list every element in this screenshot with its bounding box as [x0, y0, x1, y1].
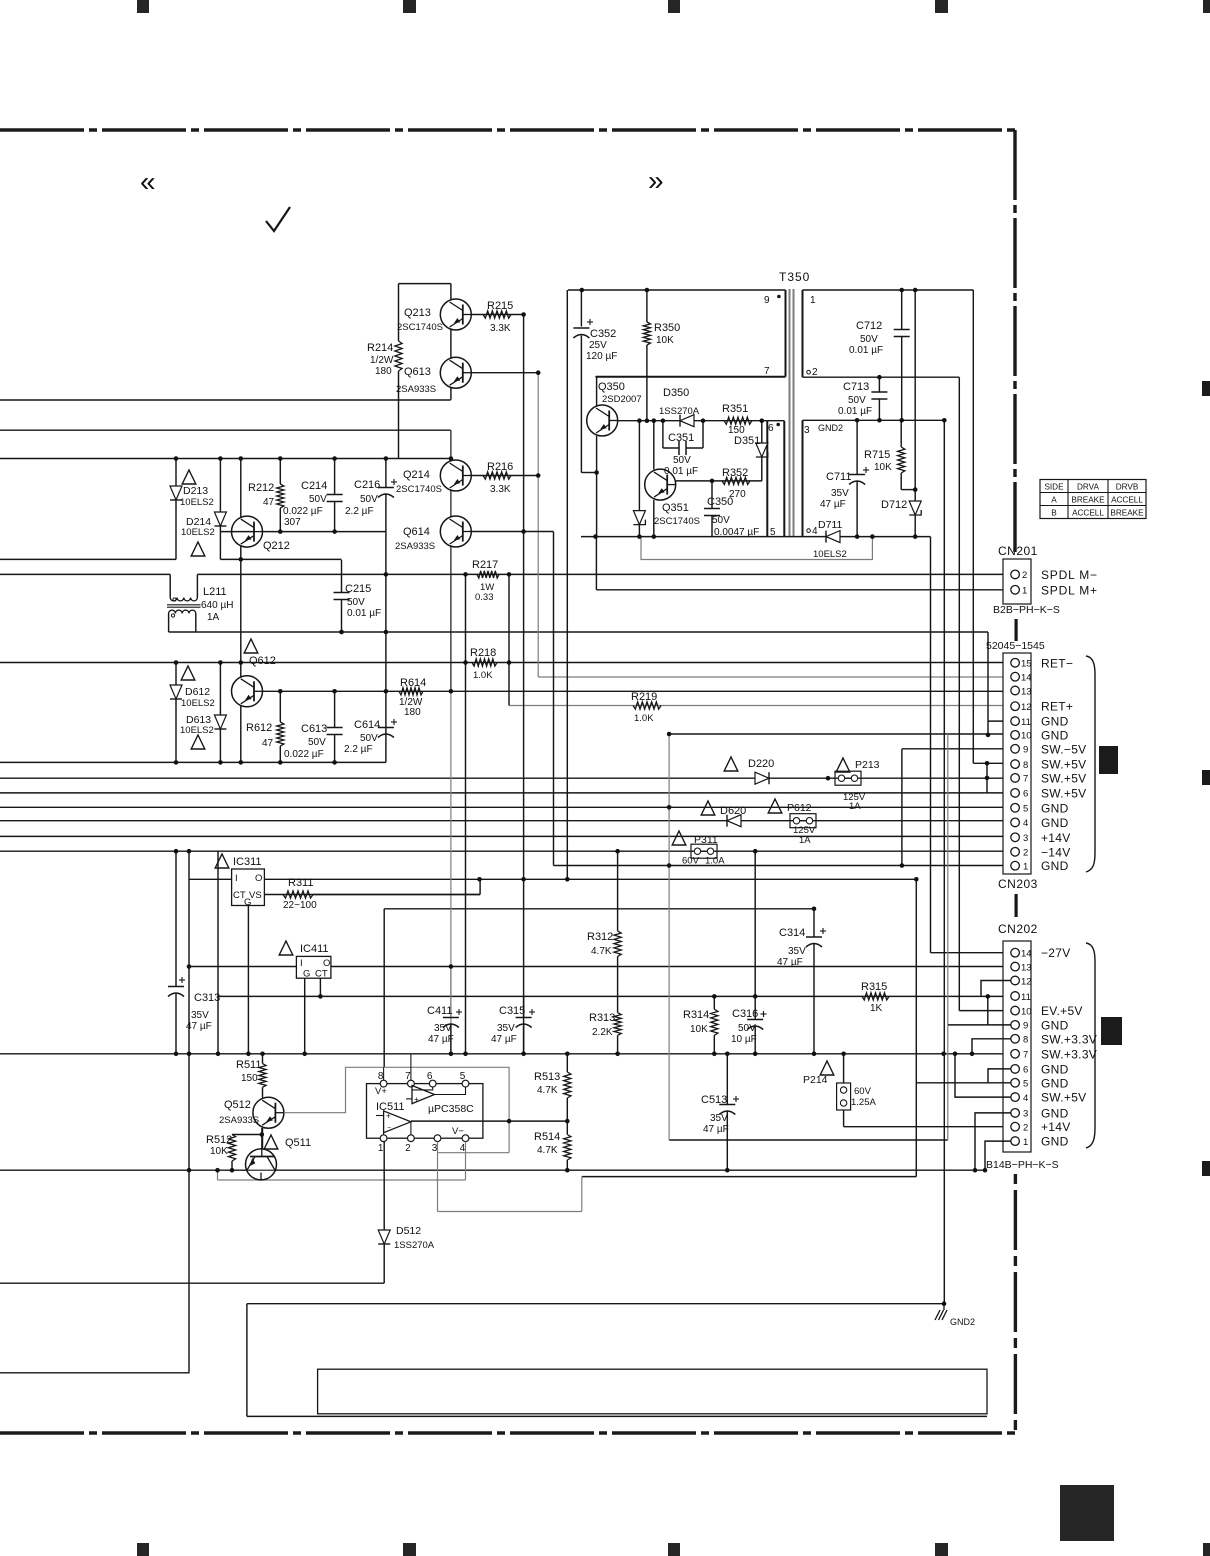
svg-text:ACCELL: ACCELL: [1072, 509, 1104, 518]
svg-text:8: 8: [1023, 760, 1028, 771]
svg-text:C215: C215: [345, 583, 371, 595]
svg-text:15: 15: [1021, 659, 1032, 670]
CN203 pin5: [1011, 804, 1020, 813]
CN202 pin1: [1011, 1137, 1020, 1146]
wire gray y1180: [218, 1179, 466, 1181]
svg-text:D612: D612: [185, 686, 210, 698]
wire y996 R315: [218, 995, 1011, 997]
svg-text:C352: C352: [590, 328, 616, 340]
svg-text:7: 7: [1023, 774, 1028, 785]
svg-text:C711: C711: [826, 471, 851, 483]
svg-text:2: 2: [1022, 570, 1027, 581]
svg-text:10: 10: [1021, 1006, 1032, 1017]
svg-text:8: 8: [378, 1071, 384, 1082]
CN203 pin3: [1011, 833, 1020, 842]
resistor R314: [713, 996, 715, 1009]
svg-text:Q212: Q212: [263, 540, 290, 552]
svg-text:P311: P311: [694, 834, 718, 846]
svg-text:R351: R351: [722, 403, 748, 415]
IC511 pins bottom: [380, 1135, 387, 1142]
svg-text:47: 47: [263, 497, 275, 508]
svg-text:50V: 50V: [360, 494, 378, 505]
svg-text:D620: D620: [720, 805, 746, 817]
resistor R350: [643, 322, 650, 345]
svg-text:1SS270A: 1SS270A: [394, 1240, 435, 1251]
svg-text:C712: C712: [856, 320, 882, 332]
IC511 pins top: [380, 1080, 387, 1087]
svg-text:RET−: RET−: [1041, 656, 1073, 670]
CN201-CN203 link bar: [1014, 619, 1017, 641]
vert R217 riser x465: [465, 576, 467, 1054]
CN202 pin4 stub: [955, 1054, 1011, 1097]
wire R216 row: [471, 475, 538, 477]
svg-text:SW.−5V: SW.−5V: [1041, 742, 1087, 756]
gray vert x509 low: [508, 1121, 510, 1153]
svg-text:7: 7: [764, 366, 770, 377]
svg-text:10K: 10K: [874, 462, 892, 473]
IC511 box: [367, 1084, 483, 1139]
gray feedback pin3: [437, 1142, 439, 1212]
svg-text:+: +: [414, 1095, 419, 1104]
CN202 pin3 stub: [975, 1113, 1011, 1170]
svg-text:P213: P213: [855, 759, 880, 771]
warning D612: [181, 666, 195, 680]
svg-text:0.33: 0.33: [475, 592, 494, 603]
svg-text:2.2K: 2.2K: [592, 1027, 613, 1038]
wire T350 top y290: [568, 289, 786, 291]
wire y1373: [0, 1372, 190, 1374]
vert C313 x176: [175, 851, 177, 986]
CN202 pin2: [1011, 1122, 1020, 1131]
svg-text:12: 12: [1021, 976, 1032, 987]
svg-text:2: 2: [812, 367, 818, 378]
transistor Q212: [232, 516, 263, 547]
IC311 G lead: [247, 906, 249, 1054]
svg-text:SPDL M+: SPDL M+: [1041, 584, 1098, 598]
svg-text:50V: 50V: [308, 737, 326, 748]
capacitor C613: [327, 727, 343, 729]
svg-text:Q351: Q351: [662, 502, 689, 514]
CN203 pin14: [1011, 672, 1020, 681]
svg-text:A: A: [1051, 496, 1057, 505]
svg-text:P612: P612: [787, 802, 812, 814]
wire IC411 I y966: [189, 966, 296, 968]
svg-text:C315: C315: [499, 1005, 525, 1017]
svg-text:25V: 25V: [589, 340, 607, 351]
svg-text:ACCELL: ACCELL: [1111, 496, 1143, 505]
svg-text:2: 2: [405, 1143, 411, 1154]
diode D620: [727, 815, 741, 827]
resistor R513: [566, 1054, 568, 1072]
svg-text:1.25A: 1.25A: [851, 1097, 876, 1108]
wire R311 y895: [264, 894, 480, 896]
svg-text:2: 2: [1023, 1123, 1028, 1134]
CN202 pin6: [1011, 1065, 1020, 1074]
svg-text:6: 6: [1023, 789, 1028, 800]
svg-text:5: 5: [1023, 804, 1028, 815]
svg-text:10: 10: [1021, 731, 1032, 742]
svg-text:BREAKE: BREAKE: [1071, 496, 1105, 505]
resistor R312 column: [617, 851, 619, 931]
wire y1283: [0, 1282, 384, 1284]
wire y458: [0, 458, 451, 460]
svg-text:3: 3: [1023, 833, 1028, 844]
T350 winding56 box: [766, 421, 768, 537]
svg-text:1: 1: [1023, 1137, 1028, 1148]
CN203 pin12: [1011, 702, 1020, 711]
svg-text:Q613: Q613: [404, 366, 431, 378]
svg-text:60V: 60V: [682, 856, 700, 867]
CN202 pin3: [1011, 1109, 1020, 1118]
vert x988 pin11: [987, 632, 989, 735]
svg-text:4.7K: 4.7K: [537, 1085, 558, 1096]
svg-text:O: O: [323, 958, 330, 969]
CN202 pin11: [1011, 992, 1020, 1001]
wire SW+5V y793: [0, 792, 1011, 794]
CN201 pin1: [1011, 586, 1020, 595]
wire SW-5V y749: [902, 748, 1011, 750]
svg-text:4.7K: 4.7K: [591, 946, 612, 957]
svg-text:3.3K: 3.3K: [490, 323, 511, 334]
vert x217 gray: [217, 1170, 219, 1180]
diode D220: [755, 772, 769, 784]
svg-text:14: 14: [1021, 949, 1032, 960]
svg-text:1: 1: [810, 295, 816, 306]
svg-text:13: 13: [1021, 686, 1032, 697]
svg-text:47 µF: 47 µF: [491, 1034, 517, 1045]
svg-text:Q512: Q512: [224, 1099, 251, 1111]
svg-text:CN201: CN201: [998, 544, 1038, 558]
wire opamp out y1121: [411, 1120, 567, 1122]
svg-text:14: 14: [1021, 673, 1032, 684]
check mark: [266, 207, 290, 231]
svg-text:»: »: [648, 165, 664, 196]
transistor Q213: [440, 299, 471, 330]
wire SPDL M- y574: [0, 573, 170, 575]
svg-text:R512: R512: [206, 1134, 232, 1146]
svg-text:47 µF: 47 µF: [703, 1124, 729, 1135]
svg-text:0.01 µF: 0.01 µF: [838, 406, 872, 417]
warning Q612: [244, 639, 258, 653]
resistor R315: [862, 993, 889, 1000]
svg-text:52045−1545: 52045−1545: [986, 640, 1045, 652]
wire y632: [169, 631, 988, 633]
svg-text:R214: R214: [367, 342, 393, 354]
capacitor C713: [878, 377, 880, 392]
svg-text:CT: CT: [315, 969, 328, 980]
svg-text:I: I: [300, 958, 303, 969]
svg-text:R352: R352: [722, 467, 748, 479]
ground GND2 symbol: [943, 1304, 945, 1310]
vert x218: [217, 851, 219, 1054]
CN202 dashdot tail: [1014, 1174, 1017, 1433]
wire base row Q612 / RET y691: [255, 690, 1011, 692]
svg-text:1: 1: [1022, 586, 1027, 597]
wire GND y1054: [0, 1053, 1011, 1055]
svg-text:D711: D711: [818, 519, 842, 531]
vert Q351 col: [653, 421, 655, 470]
pin 9 dot: [777, 295, 781, 299]
svg-text:T350: T350: [779, 270, 810, 284]
resistor R214: [395, 341, 402, 371]
diode D350: [680, 415, 694, 427]
svg-text:640 µH: 640 µH: [201, 600, 233, 611]
T350 secondary2 box: [802, 420, 804, 536]
op-amp U1a: [412, 1086, 435, 1104]
CN202 pin1 stub: [985, 1141, 1011, 1170]
wire SPDL M+ y590: [596, 589, 1010, 591]
capacitor C350: [711, 481, 713, 509]
svg-text:B: B: [1051, 509, 1057, 518]
svg-text:50V: 50V: [673, 455, 691, 466]
svg-text:3: 3: [432, 1143, 438, 1154]
svg-text:3: 3: [1023, 1109, 1028, 1120]
svg-text:GND: GND: [1041, 816, 1069, 830]
vert x553: [553, 532, 555, 866]
resistor R351: [724, 417, 752, 424]
svg-text:GND: GND: [1041, 1135, 1069, 1149]
svg-text:EV.+5V: EV.+5V: [1041, 1004, 1083, 1018]
svg-text:+14V: +14V: [1041, 831, 1071, 845]
CN203 bracket: [1086, 656, 1095, 872]
resistor R215: [483, 311, 511, 318]
svg-text:3: 3: [804, 425, 810, 436]
svg-text:Q614: Q614: [403, 526, 430, 538]
svg-text:GND: GND: [1041, 715, 1069, 729]
svg-text:11: 11: [1021, 717, 1031, 728]
svg-text:+14V: +14V: [1041, 1120, 1071, 1134]
capacitor C313: [168, 986, 184, 988]
vert C216: [385, 459, 387, 488]
resistor R216: [483, 472, 511, 479]
IC511 pin7 lead: [410, 1054, 412, 1080]
vert C215: [341, 560, 343, 593]
vert x973: [972, 290, 974, 763]
svg-text:R313: R313: [589, 1012, 615, 1024]
CN202 pin12 stub: [981, 981, 1011, 997]
svg-text:G: G: [303, 969, 310, 980]
svg-text:GND: GND: [1041, 859, 1069, 873]
wire T350 secondary top y290: [803, 289, 974, 291]
svg-text:1.0K: 1.0K: [473, 670, 493, 681]
svg-text:10K: 10K: [210, 1146, 228, 1157]
inductor L211: [169, 574, 171, 597]
wire Q212 base lead: [220, 531, 255, 533]
wire GND y734: [669, 733, 1011, 735]
wire y559a: [0, 558, 176, 560]
svg-text:47 µF: 47 µF: [428, 1034, 454, 1045]
svg-text:−14V: −14V: [1041, 845, 1071, 859]
zener D352: [638, 421, 640, 511]
gray box right edge x948: [947, 734, 949, 1140]
svg-text:B14B−PH−K−S: B14B−PH−K−S: [986, 1159, 1059, 1171]
warning P214: [820, 1061, 834, 1075]
svg-text:C316: C316: [732, 1008, 758, 1020]
wire Q613 base row: [471, 372, 538, 374]
transistor Q511: [246, 1149, 277, 1180]
svg-text:R614: R614: [400, 677, 426, 689]
CN203 pin11: [1011, 717, 1020, 726]
capacitor C513: [726, 1054, 728, 1105]
svg-text:R217: R217: [472, 559, 498, 571]
svg-text:10 µF: 10 µF: [731, 1034, 757, 1045]
svg-text:2SA933S: 2SA933S: [219, 1115, 259, 1126]
svg-text:R612: R612: [246, 722, 272, 734]
CN202 bracket: [1086, 943, 1095, 1148]
zener D712: [914, 290, 916, 501]
svg-text:2.2 µF: 2.2 µF: [345, 506, 374, 517]
connector CN202 box: [1003, 941, 1031, 1152]
IC311 box: [232, 869, 265, 906]
transistor Q214: [440, 460, 471, 491]
warning D213: [182, 470, 196, 484]
svg-text:1A: 1A: [207, 612, 220, 623]
svg-text:SW.+5V: SW.+5V: [1041, 786, 1087, 800]
diode D613: [214, 715, 226, 729]
IC411 CT lead: [319, 978, 321, 996]
svg-text:47 µF: 47 µF: [777, 957, 803, 968]
svg-text:50V: 50V: [712, 515, 730, 526]
svg-text:SPDL M−: SPDL M−: [1041, 568, 1098, 582]
vert D613: [219, 663, 221, 716]
junction dots: [521, 312, 526, 317]
svg-text:1: 1: [1023, 862, 1028, 873]
svg-text:C350: C350: [707, 496, 733, 508]
svg-text:35V: 35V: [191, 1010, 209, 1021]
gray box left edge x669: [668, 734, 670, 1140]
vert pin6-8 tie x987: [986, 763, 988, 793]
svg-text:2SA933S: 2SA933S: [395, 541, 435, 552]
svg-text:9: 9: [764, 295, 770, 306]
warning D613: [191, 735, 205, 749]
vert Q214/Q614 column: [450, 430, 452, 691]
svg-text:2SC1740S: 2SC1740S: [396, 484, 442, 495]
CN203 pin15: [1011, 659, 1020, 668]
capacitor C351 branch: [662, 421, 664, 448]
svg-text:35V: 35V: [710, 1113, 728, 1124]
svg-text:R513: R513: [534, 1071, 560, 1083]
svg-text:0.01 µF: 0.01 µF: [664, 466, 698, 477]
IC511 pin8 V+ lead: [383, 1067, 385, 1080]
vert x959: [958, 377, 960, 1010]
zener D351: [761, 421, 763, 443]
svg-text:V+: V+: [375, 1086, 387, 1097]
vert R215->R216 x523: [523, 315, 525, 1054]
wire y1177: [582, 1176, 917, 1178]
svg-text:D213: D213: [183, 485, 208, 497]
svg-text:4: 4: [1023, 1093, 1028, 1104]
svg-text:6: 6: [1023, 1065, 1028, 1076]
svg-text:10ELS2: 10ELS2: [181, 698, 215, 709]
svg-text:1.0K: 1.0K: [634, 713, 654, 724]
IC411 box: [296, 956, 331, 978]
CN202 pin12: [1011, 976, 1020, 985]
resistor R219: [633, 702, 661, 709]
wire Q614 base row: [471, 531, 554, 533]
vert x480: [479, 879, 481, 894]
CN202 pin10: [1011, 1006, 1020, 1015]
vert x930 -27V: [930, 537, 932, 953]
svg-text:GND: GND: [1041, 1076, 1069, 1090]
border frame bottom: [0, 1431, 1015, 1434]
svg-text:0.022 µF: 0.022 µF: [283, 506, 323, 517]
svg-text:1SS270A: 1SS270A: [659, 406, 700, 417]
wire +14V y836: [0, 835, 1011, 837]
svg-text:2.2 µF: 2.2 µF: [344, 744, 373, 755]
svg-text:R350: R350: [654, 322, 680, 334]
resistor R218: [472, 659, 497, 666]
diode D213: [170, 486, 182, 500]
resistor R512: [232, 1134, 262, 1136]
wire T350 bottom y537: [581, 536, 931, 538]
svg-text:2: 2: [1023, 848, 1028, 859]
svg-text:R215: R215: [487, 300, 513, 312]
svg-text:2SA933S: 2SA933S: [396, 384, 436, 395]
gray loop under D711: [641, 537, 872, 560]
resistor R614 on y691: [399, 688, 423, 695]
svg-text:180: 180: [375, 366, 392, 377]
svg-text:GND2: GND2: [950, 1317, 975, 1327]
vert D612: [175, 663, 177, 686]
svg-text:47 µF: 47 µF: [186, 1021, 212, 1032]
svg-text:7: 7: [1023, 1050, 1028, 1061]
CN201 pin2: [1011, 570, 1020, 579]
svg-text:CN202: CN202: [998, 922, 1038, 936]
svg-text:«: «: [140, 166, 156, 197]
wire R215 row: [471, 314, 524, 316]
capacitor C411: [450, 967, 452, 1018]
diode D214: [214, 512, 226, 526]
svg-text:50V: 50V: [848, 395, 866, 406]
CN203 pin4: [1011, 818, 1020, 827]
vert R212: [279, 459, 281, 485]
svg-text:Q214: Q214: [403, 469, 430, 481]
wire Q613 block top: [399, 283, 451, 285]
wire Q512 emitter gray: [284, 1067, 509, 1121]
vert x567 top: [566, 290, 568, 879]
CN202 pin6 stub: [988, 1069, 1011, 1083]
svg-text:R715: R715: [864, 449, 890, 461]
svg-text:180: 180: [404, 707, 421, 718]
svg-text:C513: C513: [701, 1094, 727, 1106]
svg-text:150: 150: [241, 1073, 258, 1084]
vert R612: [279, 691, 281, 722]
transistor Q614: [440, 516, 471, 547]
svg-text:12: 12: [1021, 702, 1032, 713]
svg-text:Q213: Q213: [404, 307, 431, 319]
svg-text:IC311: IC311: [233, 856, 262, 868]
svg-text:35V: 35V: [788, 946, 806, 957]
svg-text:10ELS2: 10ELS2: [813, 549, 847, 560]
svg-text:D512: D512: [396, 1225, 421, 1237]
svg-text:10K: 10K: [656, 335, 674, 346]
vert x916: [915, 879, 917, 1176]
CN203-CN202 link bar: [1014, 894, 1017, 917]
svg-text:R216: R216: [487, 461, 513, 473]
wire through Q511: [246, 1169, 276, 1171]
svg-text:D350: D350: [663, 387, 689, 399]
capacitor C711: [856, 420, 858, 474]
wire y909: [384, 908, 814, 910]
svg-text:B2B−PH−K−S: B2B−PH−K−S: [993, 604, 1060, 616]
svg-text:1A: 1A: [799, 835, 811, 846]
plug P612: [790, 814, 816, 828]
CN202 pin7: [1011, 1050, 1020, 1059]
wire Q350 base row / D350 row y421: [618, 420, 768, 422]
svg-text:R312: R312: [587, 931, 613, 943]
vert Q512-Q511: [262, 1128, 264, 1149]
diode D711: [826, 531, 840, 543]
